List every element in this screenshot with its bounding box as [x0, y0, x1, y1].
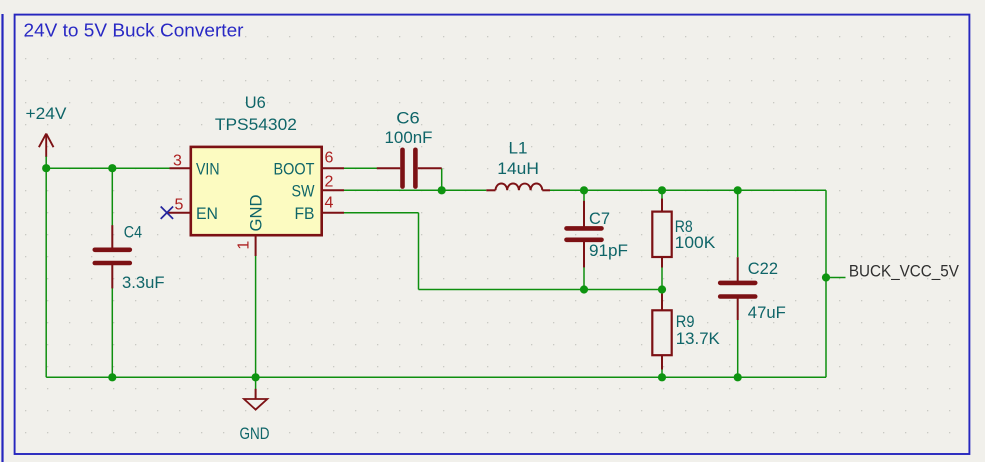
junction at +24V/VIN — [42, 164, 50, 172]
wire L1 to output node — [550, 189, 826, 191]
wire +24V stem — [45, 157, 47, 169]
wire left rail vertical — [45, 168, 47, 377]
wire GND stub — [255, 377, 257, 389]
wire C6 to SW node — [441, 168, 443, 190]
wire R8 top — [661, 190, 663, 199]
resistor R8 — [652, 199, 716, 268]
junction at C7 top — [580, 186, 588, 194]
svg-text:C6: C6 — [396, 108, 419, 127]
svg-text:TPS54302: TPS54302 — [215, 115, 297, 134]
junction at C7 bottom — [580, 285, 588, 293]
wire bottom ground bus — [46, 376, 826, 378]
svg-text:BUCK_VCC_5V: BUCK_VCC_5V — [849, 263, 959, 281]
wire C4 bottom — [111, 288, 113, 377]
junction at C4 top — [108, 164, 116, 172]
ground — [240, 389, 270, 443]
wire FB drop — [418, 213, 420, 290]
wire C7 top — [583, 190, 585, 201]
svg-text:GND: GND — [240, 424, 270, 443]
junction at R8 top — [658, 186, 666, 194]
wire R8 bottom — [661, 267, 663, 290]
junction at output label — [822, 273, 830, 281]
resistor R9 — [652, 294, 720, 370]
inductor L1 — [486, 139, 550, 191]
pin 1 GND — [236, 195, 266, 257]
junction at C6/SW — [438, 186, 446, 194]
svg-text:VIN: VIN — [196, 160, 220, 179]
svg-text:5: 5 — [175, 197, 184, 214]
wire C22 top — [737, 190, 739, 257]
svg-text:BOOT: BOOT — [274, 160, 315, 179]
svg-text:13.7K: 13.7K — [676, 329, 721, 348]
op-amp U1 replaced: regulator U6 TPS54302 body — [191, 93, 322, 235]
wire SW to L1 — [344, 189, 486, 191]
svg-text:1: 1 — [236, 241, 253, 250]
junction at C4 bottom — [108, 373, 116, 381]
svg-text:100K: 100K — [675, 233, 716, 252]
wire output label stub — [826, 277, 846, 279]
pin 5 EN — [167, 197, 218, 224]
pin 6 BOOT — [274, 150, 345, 179]
capacitor C7 — [567, 201, 629, 268]
junction at GND bus — [252, 373, 260, 381]
wire feedback mid bus — [419, 289, 663, 291]
junction at R8/R9 — [658, 285, 666, 293]
svg-text:2: 2 — [325, 174, 334, 191]
svg-text:FB: FB — [295, 204, 315, 223]
pin 3 VIN — [170, 153, 220, 179]
svg-text:SW: SW — [292, 182, 315, 201]
svg-text:GND: GND — [247, 195, 266, 232]
svg-text:C4: C4 — [124, 223, 142, 242]
svg-text:14uH: 14uH — [497, 159, 539, 178]
capacitor C22 — [720, 257, 786, 322]
wire R9 bottom — [661, 369, 663, 377]
no-connect X on EN — [161, 207, 173, 219]
svg-text:U6: U6 — [245, 93, 266, 112]
svg-text:6: 6 — [325, 150, 334, 167]
svg-text:91pF: 91pF — [589, 241, 628, 260]
capacitor C4 — [95, 223, 165, 293]
svg-text:C7: C7 — [589, 209, 610, 228]
svg-text:4: 4 — [325, 195, 334, 212]
svg-text:3: 3 — [173, 153, 182, 170]
wire right rail vertical — [825, 190, 827, 377]
svg-text:EN: EN — [196, 204, 218, 223]
wire C7 bottom — [583, 267, 585, 290]
svg-text:3.3uF: 3.3uF — [122, 273, 165, 292]
pin 2 SW — [292, 174, 345, 201]
wire +24V to VIN — [46, 167, 169, 169]
capacitor C6 — [377, 108, 442, 186]
wire C4 top — [111, 168, 113, 226]
junction at C22 top — [734, 186, 742, 194]
wire IC GND down — [255, 256, 257, 377]
junction at C22 bottom — [734, 373, 742, 381]
junction at R9 bottom — [658, 373, 666, 381]
svg-text:+24V: +24V — [26, 104, 68, 123]
pin 4 FB — [295, 195, 345, 224]
svg-text:47uF: 47uF — [748, 303, 786, 322]
wire FB horizontal — [344, 212, 419, 214]
svg-text:C22: C22 — [748, 259, 778, 278]
wire R9 top — [661, 290, 663, 298]
power flag +24V — [26, 104, 68, 157]
wire BOOT to C6 — [344, 167, 377, 169]
svg-text:100nF: 100nF — [385, 128, 433, 147]
svg-text:L1: L1 — [509, 139, 528, 158]
svg-text:24V to 5V Buck Converter: 24V to 5V Buck Converter — [24, 21, 244, 41]
wire C22 bottom — [737, 320, 739, 377]
